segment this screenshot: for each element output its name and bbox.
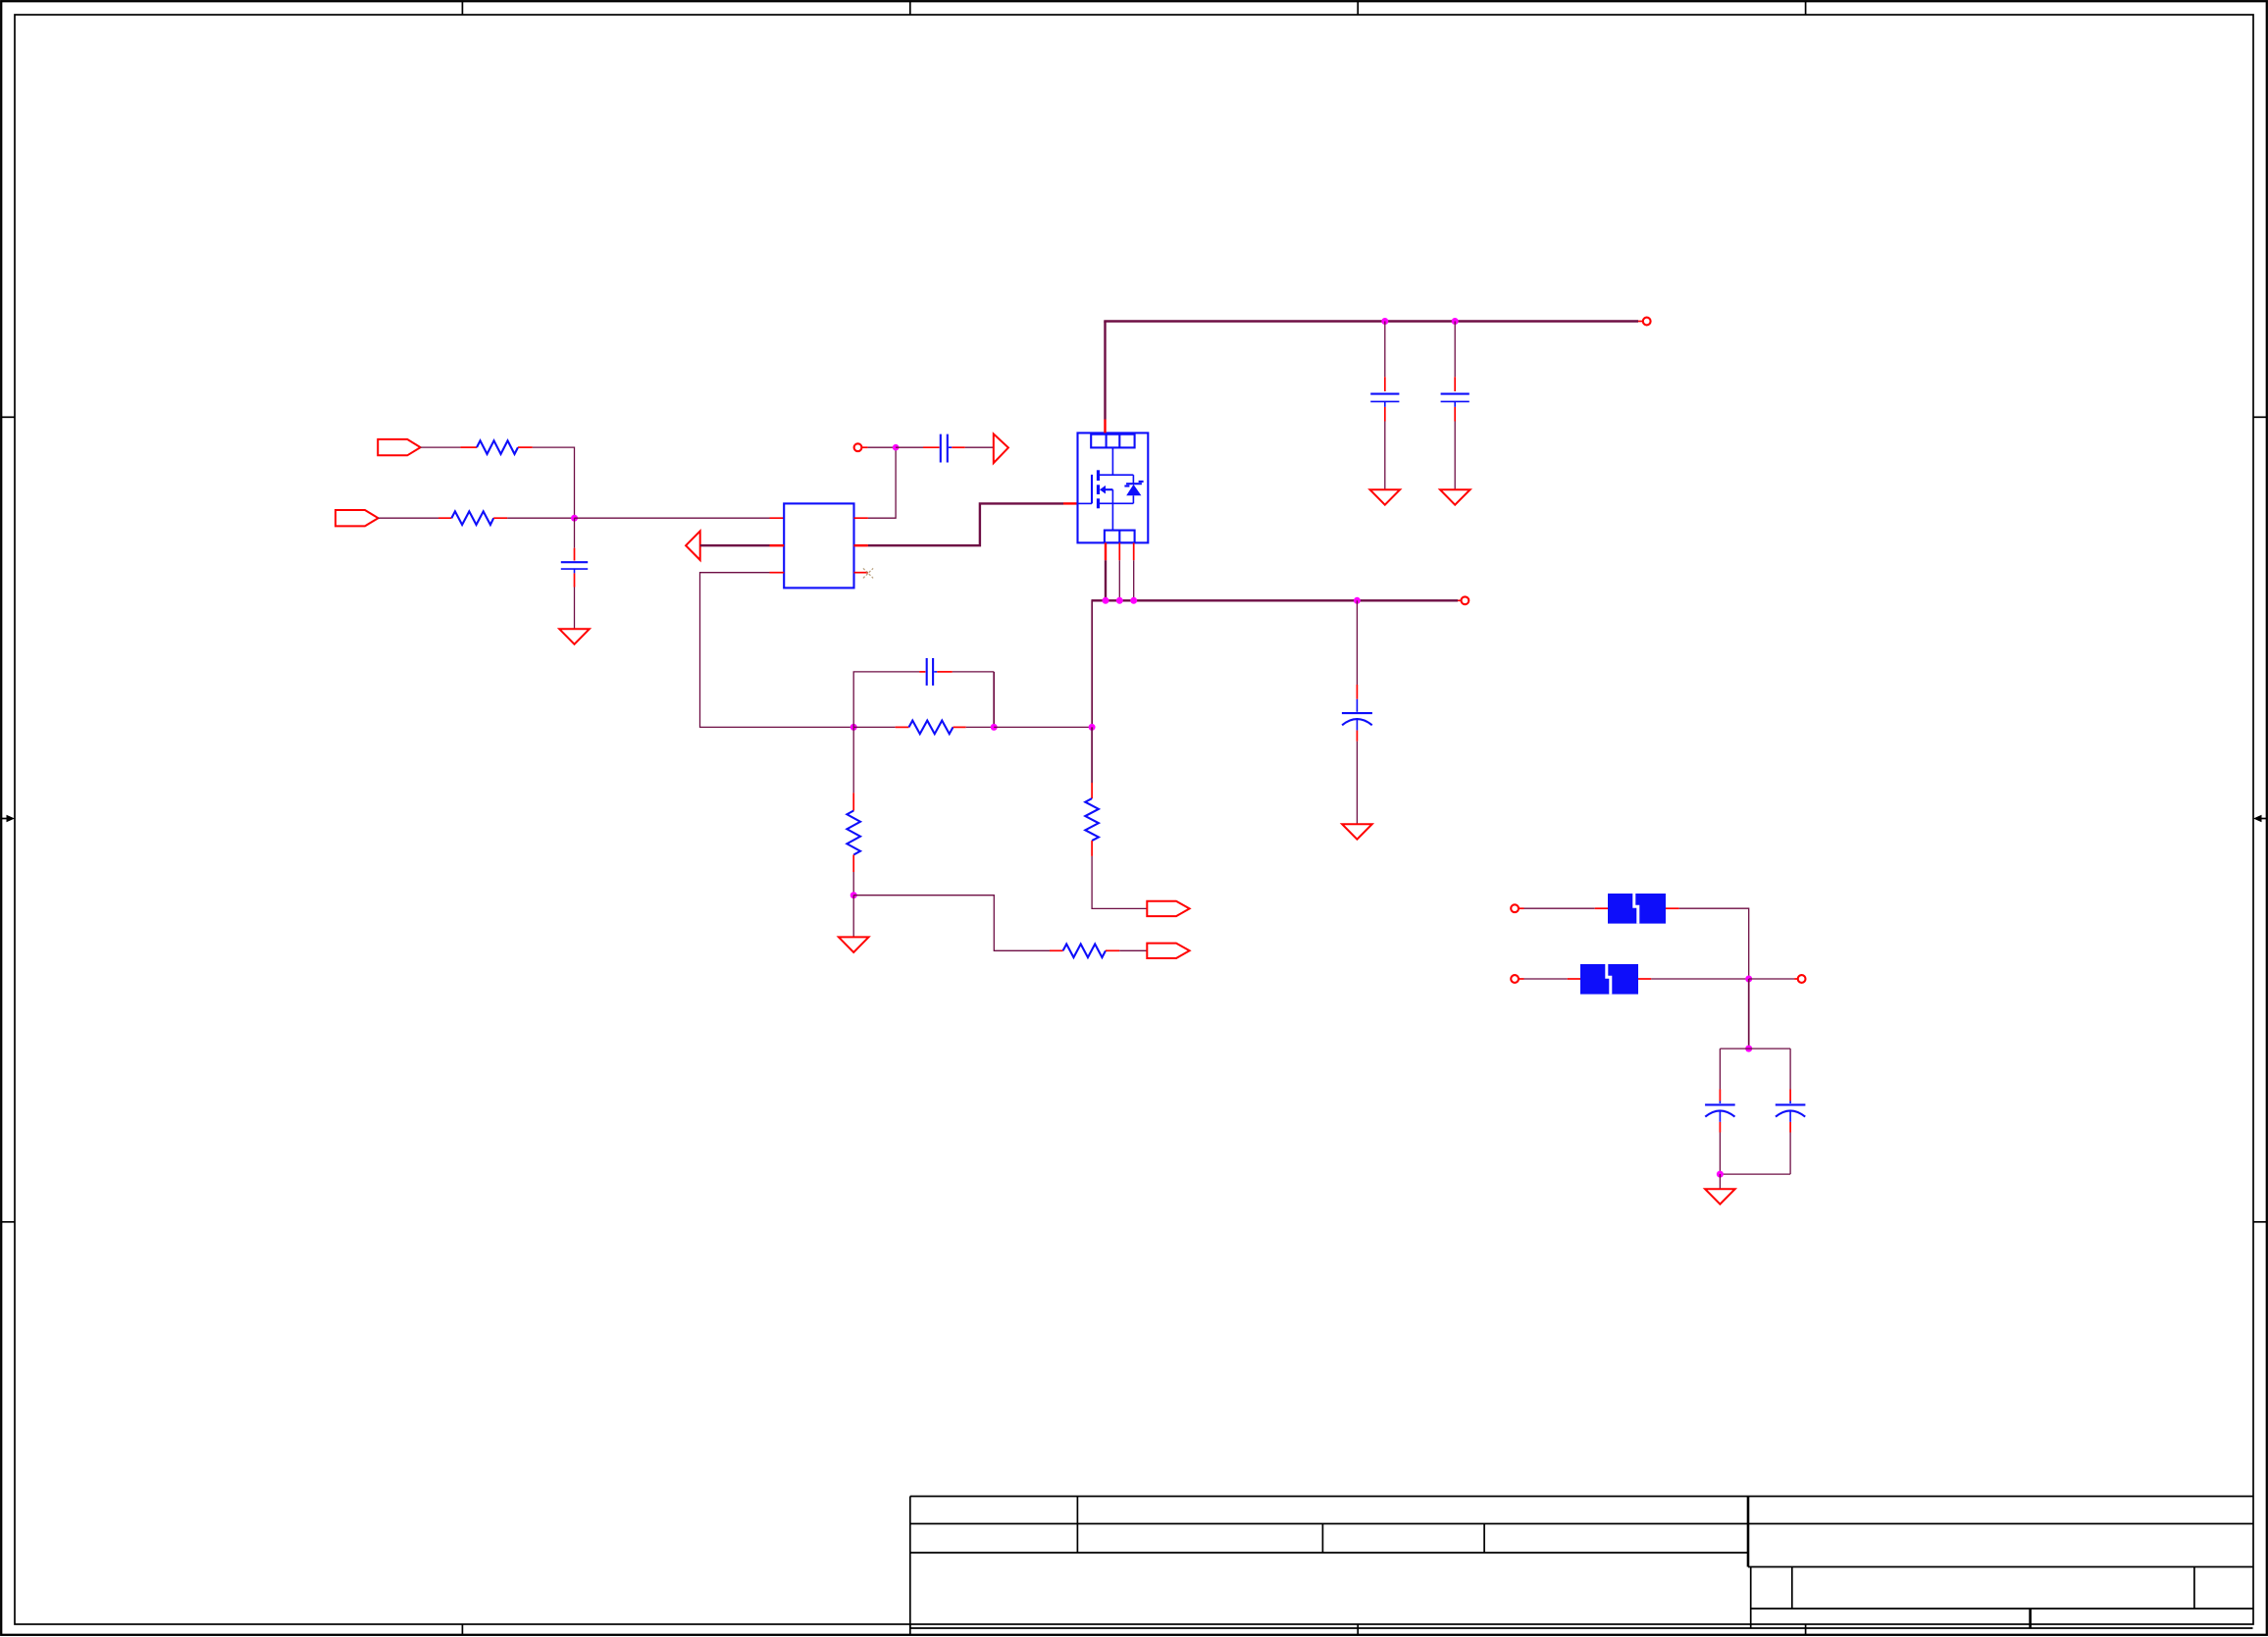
ground G3 bbox=[1440, 489, 1470, 505]
transistor Q1 package outline bbox=[1078, 433, 1149, 542]
Q1 channel bar top bbox=[1097, 470, 1100, 481]
pin stub U1 pin3 right bbox=[854, 572, 868, 574]
Q1 channel bar bottom bbox=[1097, 498, 1100, 508]
wire R1 to corner bbox=[533, 447, 575, 518]
capacitor C2 bbox=[941, 435, 953, 463]
ground G4 bbox=[1342, 824, 1372, 840]
bottom zone tick 1 bbox=[461, 1624, 463, 1635]
wire U1 pin2 to Q1 gate bbox=[868, 503, 1063, 545]
right zone tick 1 bbox=[2253, 416, 2267, 418]
pin stub T4 bbox=[1519, 907, 1523, 909]
left centering arrow bbox=[2, 815, 15, 823]
wire VOUT rail bbox=[1091, 599, 1093, 727]
pin stub T3 bbox=[1458, 599, 1462, 601]
Q1 gate lead bbox=[1078, 502, 1093, 504]
terminal circle T4 bbox=[1511, 904, 1519, 912]
Q1 top pin box row bbox=[1091, 435, 1134, 448]
title block divider v2 bbox=[1321, 1524, 1323, 1554]
title block right third line bbox=[1748, 1566, 2253, 1568]
wire node M down bbox=[1748, 979, 1750, 1049]
node VIN-C3 junction bbox=[1381, 318, 1388, 325]
capacitor C1 bbox=[561, 562, 588, 573]
wire cap bracket top bbox=[1720, 1048, 1790, 1049]
pin stub U1 pin2 left bbox=[770, 544, 785, 546]
capacitor C3 bbox=[1370, 394, 1399, 407]
port P2 input tag lower bbox=[335, 510, 379, 526]
resistor R1 bbox=[477, 440, 518, 454]
terminal circle T5 bbox=[1511, 975, 1519, 983]
wire C8 to bottom rail bbox=[1789, 1133, 1791, 1175]
title block divider v3 bbox=[1483, 1524, 1485, 1554]
node IN junction bbox=[571, 515, 578, 522]
node M junction bbox=[1745, 976, 1752, 983]
wire C2 to port P3 bbox=[965, 446, 994, 448]
top zone tick 2 bbox=[909, 1, 911, 15]
wire C7 top leg bbox=[1719, 1049, 1721, 1089]
Q1 source spine bbox=[1111, 489, 1113, 530]
pin stub R4 bottom bbox=[1091, 841, 1093, 856]
ground G5 bbox=[839, 937, 869, 952]
body diode D1 anode lead bbox=[1132, 495, 1134, 503]
pin stub T6 bbox=[1794, 978, 1798, 980]
wire C5 drop bbox=[1356, 600, 1358, 685]
terminal circle T3 bbox=[1462, 596, 1469, 604]
node G junction bbox=[850, 892, 857, 898]
pin stub Q1 source 2 bbox=[1118, 542, 1120, 560]
pin stub C1 bottom bbox=[574, 573, 576, 587]
capacitor C5 polarized bbox=[1342, 699, 1372, 731]
wire P1 to R1 bbox=[421, 446, 461, 448]
wire FB2 to node M bbox=[1651, 978, 1748, 980]
pin stub R5 left bbox=[1050, 949, 1063, 951]
node VIN-C4 junction bbox=[1452, 318, 1459, 325]
port P6 output tag lower bbox=[1147, 944, 1189, 958]
wire C5 to ground bbox=[1356, 742, 1358, 824]
pin stub U1 pin3 left bbox=[770, 572, 785, 574]
pin stub C6 left bbox=[919, 671, 925, 673]
capacitor C6 bbox=[927, 658, 938, 686]
pin stub FB1 left bbox=[1595, 907, 1608, 909]
title block top line bbox=[910, 1496, 2253, 1498]
node FB2 junction bbox=[991, 724, 998, 731]
wire Q1 source 2 to rail bbox=[1118, 560, 1120, 600]
body diode D1 triangle bbox=[1126, 485, 1141, 495]
Q1 body arrow bbox=[1100, 486, 1106, 494]
wire T4 to FB1 bbox=[1524, 907, 1595, 909]
bottom zone tick 3 bbox=[1357, 1624, 1359, 1635]
top zone tick 3 bbox=[1357, 1, 1359, 15]
wire node BST to C2 bbox=[896, 446, 923, 448]
title block bottom line bbox=[910, 1627, 2253, 1629]
pin stub R4 top bbox=[1091, 783, 1093, 798]
node FB3 junction bbox=[1089, 724, 1096, 731]
wire node G to ground bbox=[852, 895, 854, 938]
bottom zone tick 4 bbox=[1805, 1624, 1807, 1635]
wire VIN top rail bbox=[1104, 320, 1638, 322]
top zone tick 4 bbox=[1805, 1, 1807, 15]
port P3 arrow right bbox=[994, 434, 1008, 463]
pin stub FB2 left bbox=[1568, 978, 1580, 980]
wire C6 down leg bbox=[993, 672, 995, 728]
pin stub C2 left bbox=[923, 446, 940, 448]
wire FB3 drop to R4 bbox=[1091, 727, 1093, 783]
pin stub C8 top bbox=[1789, 1090, 1791, 1101]
resistor R5 bbox=[1063, 945, 1106, 958]
Q1 bottom pin box row bbox=[1105, 531, 1135, 543]
pin stub C5 bottom bbox=[1356, 731, 1358, 742]
pin stub U1 pin1 right bbox=[854, 517, 868, 519]
resistor R6 bbox=[909, 721, 954, 735]
ground G2 bbox=[1370, 489, 1401, 505]
pin stub C4 top bbox=[1454, 377, 1456, 391]
wire cap bracket bottom bbox=[1720, 1173, 1790, 1175]
capacitor C8 polarized bbox=[1776, 1101, 1806, 1122]
IC U1 bbox=[784, 503, 853, 588]
title block row A divider v4 bbox=[1791, 1567, 1793, 1610]
pin stub U1 pin1 left bbox=[770, 517, 785, 519]
capacitor C7 polarized bbox=[1705, 1101, 1735, 1122]
pin stub T2 bbox=[1638, 321, 1643, 323]
node rail junction 1 bbox=[1103, 597, 1109, 604]
title block heavy divider bbox=[1747, 1497, 1750, 1567]
pin stub C2 right bbox=[952, 446, 965, 448]
wire FB to R6 bbox=[853, 726, 895, 728]
wire node FB2 to node FB3 bbox=[994, 726, 1092, 728]
pin stub Q1 gate bbox=[1063, 502, 1078, 504]
title block row B heavy divider bbox=[2029, 1609, 2032, 1628]
pin stub R1 left bbox=[460, 446, 477, 448]
title block second line bbox=[910, 1523, 2253, 1525]
wire C6 to node FB2 bbox=[953, 671, 994, 673]
wire P4 to U1 pin2 bbox=[700, 544, 770, 546]
terminal circle T1 bbox=[854, 443, 862, 451]
wire Q1 source 1 to rail bbox=[1105, 560, 1107, 600]
pin stub C7 top bbox=[1719, 1090, 1721, 1101]
pin stub FB2 right bbox=[1638, 978, 1651, 980]
title block row A divider v5 bbox=[2193, 1567, 2195, 1610]
Q1 gate bar bbox=[1091, 475, 1093, 504]
wire T1 to node BST bbox=[868, 446, 897, 448]
Q1 source link bbox=[1100, 502, 1133, 504]
pin stub C5 top bbox=[1356, 685, 1358, 699]
pin stub R6 right bbox=[954, 726, 966, 728]
wire node M to T6 bbox=[1749, 978, 1794, 980]
pin stub T5 bbox=[1519, 978, 1523, 980]
wire node IN to U1 pin1 bbox=[575, 517, 770, 519]
ferrite bead FB1 bbox=[1608, 894, 1666, 924]
port P4 arrow left bbox=[686, 531, 700, 560]
resistor R2 bbox=[451, 511, 493, 525]
terminal circle T2 bbox=[1643, 318, 1651, 326]
title block left edge bbox=[909, 1497, 911, 1629]
wire R5 to port P6 bbox=[1119, 949, 1147, 951]
title block row A left edge bbox=[1750, 1567, 1752, 1629]
wire C4 to ground bbox=[1454, 422, 1456, 490]
resistor R4 bbox=[1085, 798, 1099, 841]
capacitor C4 bbox=[1441, 394, 1469, 407]
wire P2 to R2 bbox=[379, 517, 439, 519]
pin stub U1 pin2 right bbox=[854, 544, 868, 546]
wire R6 to node FB2 bbox=[966, 726, 995, 728]
pin stub C3 top bbox=[1384, 377, 1386, 391]
wire C1 to ground bbox=[574, 588, 576, 630]
wire C3 to ground bbox=[1384, 422, 1386, 490]
wire FB drop to R3 bbox=[852, 727, 854, 793]
left zone tick 1 bbox=[1, 416, 15, 418]
wire node M3 to ground bbox=[1719, 1174, 1721, 1189]
wire R3 to node G bbox=[852, 872, 854, 895]
node rail junction 2 bbox=[1116, 597, 1123, 604]
node rail-C5 junction bbox=[1354, 597, 1361, 604]
ground G6 bbox=[1705, 1189, 1735, 1204]
pin stub C3 bottom bbox=[1384, 407, 1386, 422]
pin stub R2 right bbox=[493, 517, 507, 519]
pin stub T1 right bbox=[862, 446, 868, 448]
wire U1 pin3 to feedback node bbox=[700, 573, 854, 728]
wire C7 to bottom rail bbox=[1719, 1133, 1721, 1175]
pin stub C4 bottom bbox=[1454, 407, 1456, 422]
pin stub Q1 source 3 bbox=[1133, 542, 1135, 560]
terminal circle T6 bbox=[1798, 975, 1806, 983]
title block row A bottom line bbox=[1751, 1608, 2253, 1610]
Q1 drain link bbox=[1100, 447, 1133, 475]
pin stub R3 bottom bbox=[852, 855, 854, 873]
title block left third line bbox=[910, 1552, 1748, 1554]
Q1 channel bar middle bbox=[1097, 485, 1100, 494]
bottom zone tick 2 bbox=[909, 1624, 911, 1635]
wire C4 drop bbox=[1454, 322, 1456, 378]
right zone tick 2 bbox=[2253, 1221, 2267, 1223]
wire node IN down to C1 bbox=[574, 518, 576, 548]
ground G1 bbox=[559, 629, 590, 644]
pin stub R3 top bbox=[852, 793, 854, 810]
ferrite bead FB2 bbox=[1580, 964, 1638, 995]
wire Q1 source 3 to rail bbox=[1133, 560, 1135, 600]
wire VIN riser bbox=[1104, 322, 1106, 420]
no-connect X on U1 pin3 bbox=[863, 568, 873, 578]
node BST junction bbox=[893, 444, 900, 451]
wire R2 to node IN bbox=[507, 517, 574, 519]
Q1 body link bbox=[1106, 488, 1113, 490]
pin stub C6 right bbox=[937, 671, 953, 673]
wire C3 drop bbox=[1384, 322, 1386, 378]
resistor R3 bbox=[847, 811, 860, 855]
pin stub C1 top bbox=[574, 548, 576, 561]
node M3 junction bbox=[1717, 1171, 1724, 1178]
wire FB to C6 branch bbox=[853, 672, 919, 728]
right centering arrow bbox=[2253, 815, 2266, 823]
pin stub Q1 source 1 bbox=[1105, 542, 1107, 560]
pin stub R1 right bbox=[518, 446, 533, 448]
wire C8 top leg bbox=[1789, 1049, 1791, 1089]
left zone tick 2 bbox=[1, 1221, 15, 1223]
node FB junction bbox=[850, 724, 857, 731]
pin stub C8 bottom bbox=[1789, 1122, 1791, 1133]
wire U1 pin1 to node BST bbox=[868, 447, 896, 518]
port P5 output tag upper bbox=[1147, 901, 1189, 916]
wire R4 to port P5 bbox=[1092, 856, 1147, 909]
pin stub FB1 right bbox=[1666, 907, 1679, 909]
wire node G to R5 bbox=[853, 895, 1050, 951]
pin stub Q1 drain top bbox=[1104, 420, 1106, 434]
wire T5 to FB2 bbox=[1524, 978, 1568, 980]
port P1 input tag top bbox=[378, 439, 420, 455]
node M2 junction bbox=[1745, 1046, 1752, 1052]
top zone tick 1 bbox=[461, 1, 463, 15]
pin stub R2 left bbox=[438, 517, 451, 519]
pin stub C7 bottom bbox=[1719, 1122, 1721, 1133]
body diode D1 cathode bbox=[1124, 475, 1143, 486]
pin stub R5 right bbox=[1106, 949, 1119, 951]
node rail junction 3 bbox=[1130, 597, 1137, 604]
title block divider v1 bbox=[1076, 1497, 1078, 1554]
wire FB1 to node M bbox=[1679, 908, 1749, 979]
pin stub R6 left bbox=[896, 726, 909, 728]
